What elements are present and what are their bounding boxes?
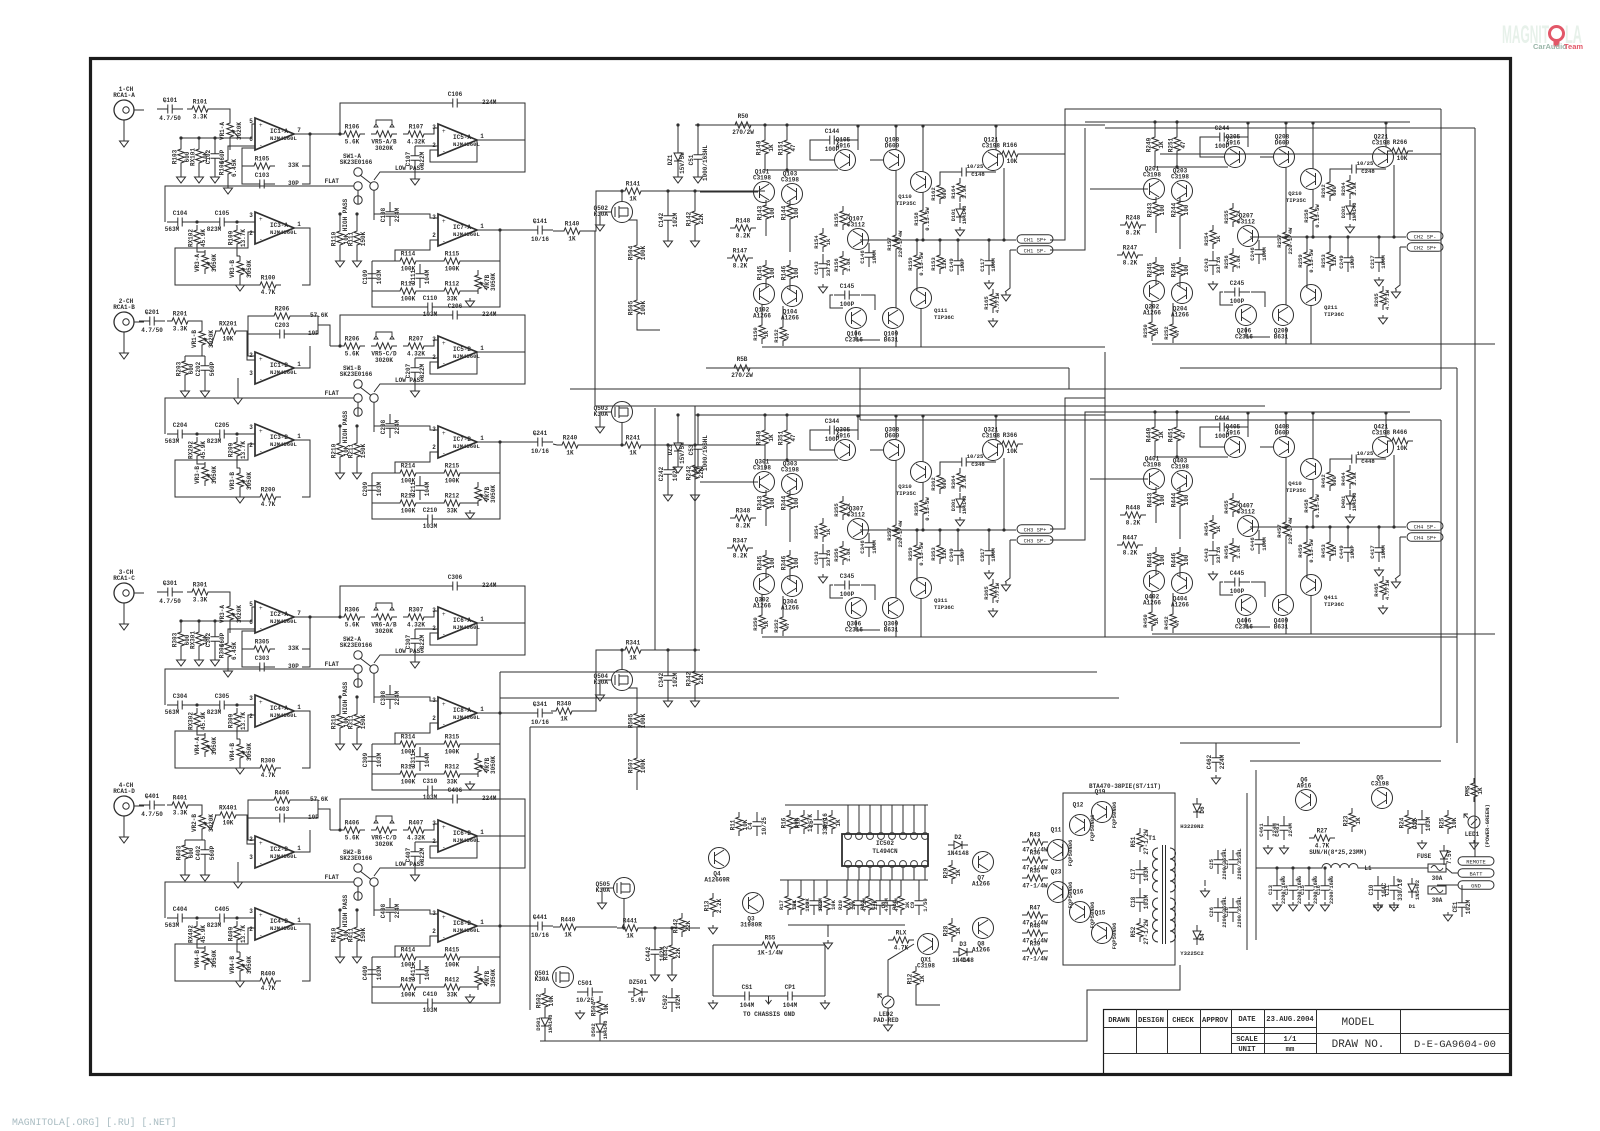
- svg-text:C317: C317: [979, 548, 986, 561]
- wire highpass: [357, 673, 359, 687]
- junction: [921, 238, 924, 241]
- wire: [916, 240, 918, 252]
- resistor: [1310, 492, 1316, 516]
- wire: [184, 840, 186, 846]
- svg-text:R144: R144: [781, 205, 788, 220]
- svg-text:R106: R106: [345, 124, 360, 131]
- svg-text:R153: R153: [930, 257, 937, 271]
- resistor R348: [730, 515, 756, 521]
- svg-text:1K: 1K: [560, 716, 568, 723]
- resistor R245: [1153, 257, 1159, 281]
- capacitor: [985, 541, 994, 565]
- capacitor C310: [417, 786, 443, 795]
- svg-text:224M: 224M: [1219, 754, 1226, 769]
- wire: [184, 355, 186, 357]
- ground: [989, 608, 998, 617]
- wire: [697, 415, 699, 435]
- transistor Q404: [1172, 573, 1193, 594]
- wire: [1285, 539, 1287, 595]
- svg-text:10/25: 10/25: [1357, 450, 1374, 457]
- svg-text:R448: R448: [1126, 505, 1141, 512]
- wire: [922, 126, 924, 172]
- resistor: [1327, 247, 1333, 271]
- wire fb top right: [466, 315, 525, 352]
- wire: [667, 690, 669, 698]
- svg-text:C11: C11: [1384, 884, 1391, 895]
- svg-text:R451: R451: [1168, 427, 1175, 442]
- svg-text:C17: C17: [1130, 868, 1137, 879]
- svg-text:FLAT: FLAT: [325, 874, 340, 881]
- svg-text:6.45K: 6.45K: [231, 642, 238, 660]
- svg-text:1K: 1K: [626, 933, 634, 940]
- svg-text:C446: C446: [1249, 537, 1256, 551]
- wire: [1179, 491, 1181, 493]
- svg-text:1N4148: 1N4148: [1352, 203, 1358, 222]
- capacitor: [985, 251, 994, 275]
- junction: [235, 703, 238, 706]
- potentiometer: [371, 131, 397, 137]
- junction: [1392, 235, 1395, 238]
- svg-text:R411: R411: [348, 927, 355, 942]
- resistor R301: [187, 589, 213, 595]
- svg-text:47: 47: [1174, 620, 1181, 627]
- svg-text:1N4148: 1N4148: [962, 206, 968, 225]
- junction: [1175, 165, 1178, 168]
- wire: [1176, 446, 1178, 457]
- svg-text:-: -: [442, 238, 446, 245]
- svg-text:33K: 33K: [447, 296, 458, 303]
- svg-text:1K: 1K: [1153, 617, 1160, 624]
- transistor Q205: [1225, 147, 1246, 168]
- svg-text:100: 100: [1183, 204, 1190, 215]
- svg-text:FQP50N06: FQP50N06: [1111, 801, 1118, 828]
- junction: [894, 414, 897, 417]
- svg-text:R36: R36: [1030, 850, 1041, 857]
- resistor: [1230, 203, 1236, 227]
- svg-text:R11: R11: [730, 819, 737, 830]
- svg-text:Q12: Q12: [1073, 802, 1084, 809]
- svg-text:VR4-B: VR4-B: [229, 743, 236, 761]
- wire: [845, 430, 858, 440]
- svg-text:45.9K: 45.9K: [200, 712, 207, 730]
- wire fb top right: [466, 103, 525, 140]
- wire bottom bus: [1152, 343, 1495, 345]
- junction: [666, 648, 669, 651]
- svg-text:C410: C410: [423, 991, 438, 998]
- svg-text:IC5-A: IC5-A: [453, 134, 471, 141]
- capacitor C441: [527, 922, 553, 931]
- pot wiper: [480, 978, 487, 986]
- potentiometer: [475, 482, 481, 506]
- svg-text:CH2 SP+: CH2 SP+: [1414, 246, 1437, 252]
- wire: [895, 542, 897, 598]
- resistor: [1327, 467, 1333, 491]
- svg-text:224M: 224M: [394, 690, 401, 705]
- svg-text:33/16: 33/16: [825, 259, 832, 276]
- wire bus: [500, 671, 1097, 673]
- svg-text:Q410: Q410: [1288, 480, 1302, 487]
- wire: [916, 273, 918, 290]
- resistor R206: [269, 313, 295, 319]
- resistor R140: [559, 228, 585, 234]
- svg-text:560P: 560P: [209, 361, 216, 376]
- capacitor: [915, 891, 924, 915]
- wire: [1260, 156, 1273, 158]
- resistor R312: [439, 771, 465, 777]
- wire: [193, 321, 202, 328]
- wire: [421, 290, 439, 292]
- junction: [693, 648, 696, 651]
- svg-text:TO CHASSIS GND: TO CHASSIS GND: [743, 1011, 795, 1018]
- wire: [1385, 123, 1387, 147]
- junction: [1311, 525, 1314, 528]
- resistor R19: [829, 810, 835, 834]
- wire fb top: [340, 315, 444, 346]
- svg-text:5: 5: [249, 601, 253, 608]
- wire: [302, 134, 310, 184]
- wire bus: [1068, 368, 1070, 389]
- wire: [782, 306, 784, 322]
- svg-text:HIGH PASS: HIGH PASS: [342, 198, 349, 231]
- wire inv: [415, 357, 438, 359]
- svg-text:1K: 1K: [568, 236, 576, 243]
- wire: [235, 918, 255, 924]
- svg-text:C3198: C3198: [1171, 464, 1189, 471]
- resistor RX102: [194, 225, 200, 249]
- junction: [620, 189, 623, 192]
- svg-text:103M: 103M: [1425, 816, 1432, 831]
- wire: [184, 380, 186, 388]
- ground: [411, 176, 420, 185]
- svg-text:R146: R146: [781, 265, 788, 280]
- transistor Q16: [1070, 902, 1091, 923]
- svg-text:R459: R459: [1297, 544, 1304, 558]
- wire: [761, 594, 763, 610]
- wire: [193, 917, 209, 919]
- svg-text:10MM: 10MM: [1380, 255, 1387, 269]
- wire: [339, 733, 341, 741]
- svg-text:100K: 100K: [401, 779, 416, 786]
- transistor Q101: [754, 182, 775, 203]
- svg-text:DZ1: DZ1: [667, 154, 674, 165]
- ground: [691, 698, 700, 707]
- resistor: [997, 151, 1023, 157]
- junction: [693, 443, 696, 446]
- svg-text:Q11: Q11: [1051, 827, 1062, 834]
- wire bus: [530, 726, 1441, 728]
- wire: [1235, 137, 1248, 147]
- capacitor: [694, 435, 703, 459]
- FET Q505: [614, 878, 635, 899]
- resistor R143: [763, 200, 769, 224]
- svg-text:330/16: 330/16: [1397, 879, 1404, 901]
- svg-text:33K: 33K: [288, 162, 299, 169]
- svg-text:C101: C101: [163, 97, 178, 104]
- junction: [620, 443, 623, 446]
- svg-text:R55: R55: [765, 935, 776, 942]
- svg-text:1000/16SHL: 1000/16SHL: [702, 435, 709, 471]
- wire bus: [1440, 420, 1442, 727]
- svg-text:Q310: Q310: [898, 483, 912, 490]
- svg-text:R165: R165: [983, 296, 990, 310]
- wire: [810, 140, 835, 160]
- wire supply bus: [695, 124, 1105, 126]
- wire: [870, 449, 883, 451]
- wire: [1246, 617, 1270, 627]
- resistor: [1327, 177, 1333, 201]
- svg-text:IC3-B: IC3-B: [270, 434, 288, 441]
- wire bus: [1180, 367, 1457, 369]
- capacitor: [1255, 240, 1264, 264]
- junction: [308, 132, 311, 135]
- wire: [184, 839, 186, 841]
- transistor Q15: [1092, 923, 1113, 944]
- wire lowpass: [374, 352, 525, 392]
- transistor Q12: [1070, 815, 1091, 836]
- svg-text:DRAW NO.: DRAW NO.: [1332, 1039, 1385, 1051]
- wire opamp4 out: [477, 712, 530, 714]
- wire: [636, 264, 638, 297]
- capacitor: [1255, 530, 1264, 554]
- svg-text:R364: R364: [950, 475, 957, 489]
- wire: [553, 230, 559, 232]
- ground: [1375, 567, 1384, 576]
- op-amp IC3-A: [255, 212, 294, 244]
- svg-text:R352: R352: [773, 619, 780, 633]
- svg-text:R22: R22: [817, 899, 824, 910]
- wire: [764, 125, 766, 135]
- wire: [988, 240, 990, 252]
- svg-text:FLAT: FLAT: [325, 178, 340, 185]
- wire: [248, 800, 269, 818]
- resistor R306: [339, 614, 365, 620]
- wire: [1155, 281, 1157, 285]
- svg-text:R401: R401: [173, 795, 188, 802]
- wire: [239, 492, 241, 494]
- svg-text:C349: C349: [948, 548, 955, 562]
- svg-text:10MM: 10MM: [871, 250, 878, 264]
- junction: [1246, 121, 1249, 124]
- svg-text:-: -: [259, 376, 263, 383]
- junction: [1346, 525, 1349, 528]
- svg-text:R264: R264: [1340, 182, 1347, 196]
- resistor: [1210, 515, 1216, 539]
- op-amp IC3-B: [255, 424, 294, 456]
- svg-text:R456: R456: [1223, 545, 1230, 559]
- wire: [1306, 237, 1308, 249]
- svg-text:-: -: [442, 148, 446, 155]
- IC502 pins: [845, 833, 852, 840]
- resistor: [1170, 319, 1176, 343]
- resistor R39: [1022, 948, 1048, 954]
- svg-text:4.7/1W: 4.7/1W: [1384, 579, 1391, 600]
- svg-text:R443: R443: [1147, 492, 1154, 507]
- svg-text:R51: R51: [1130, 836, 1137, 847]
- svg-text:R112: R112: [445, 281, 460, 288]
- svg-text:220-1/4W: 220-1/4W: [897, 230, 904, 257]
- junction: [1384, 121, 1387, 124]
- diode: [674, 437, 682, 457]
- svg-text:563M: 563M: [165, 709, 180, 716]
- transistor: [911, 462, 932, 483]
- svg-text:30A: 30A: [1432, 897, 1443, 904]
- svg-text:R16: R16: [781, 817, 788, 828]
- transistor Q402: [1144, 571, 1165, 592]
- svg-text:1K: 1K: [955, 927, 962, 935]
- junction: [1284, 411, 1287, 414]
- resistor R315: [439, 741, 465, 747]
- svg-text:47: 47: [784, 333, 791, 340]
- transistor Q409: [1273, 595, 1294, 616]
- svg-text:R155: R155: [833, 213, 840, 227]
- wire: [421, 743, 439, 745]
- svg-text:C442: C442: [645, 946, 652, 961]
- wire: [1220, 582, 1233, 595]
- resistor R147: [727, 255, 753, 261]
- svg-text:R209: R209: [228, 442, 235, 457]
- ground: [1209, 281, 1218, 290]
- svg-text:R5B: R5B: [737, 356, 748, 363]
- svg-text:IC502: IC502: [876, 840, 894, 847]
- svg-text:100K: 100K: [640, 713, 647, 728]
- svg-text:R450: R450: [1142, 614, 1149, 628]
- wire flat: [215, 881, 354, 883]
- wire: [1151, 591, 1153, 607]
- svg-text:23.AUG.2004: 23.AUG.2004: [1266, 1016, 1314, 1024]
- resistor: [798, 891, 804, 915]
- svg-text:R111: R111: [348, 231, 355, 246]
- junction: [1328, 235, 1331, 238]
- wire opamp3 fb: [294, 228, 310, 285]
- op-amp IC2-B: [255, 836, 294, 868]
- svg-text:C342: C342: [658, 672, 665, 687]
- svg-text:10K: 10K: [1397, 445, 1408, 452]
- junction: [355, 908, 358, 911]
- svg-text:8.2K: 8.2K: [733, 553, 748, 560]
- wire input node: [181, 620, 252, 622]
- svg-text:2200/35SHL: 2200/35SHL: [1237, 848, 1243, 879]
- svg-text:47: 47: [790, 144, 797, 152]
- svg-text:+: +: [442, 914, 446, 921]
- svg-text:C15: C15: [1299, 884, 1306, 895]
- resistor: [898, 891, 904, 915]
- svg-text:33/16: 33/16: [825, 549, 832, 566]
- svg-text:1000/16SHL: 1000/16SHL: [702, 145, 709, 181]
- svg-text:IC3-A: IC3-A: [270, 222, 288, 229]
- svg-text:+: +: [259, 699, 263, 706]
- resistor: [840, 251, 846, 275]
- svg-text:+: +: [259, 216, 263, 223]
- wire fb top: [340, 586, 444, 617]
- transistor Q107: [848, 229, 869, 250]
- svg-text:RX102: RX102: [188, 229, 195, 247]
- svg-text:0.15-5W: 0.15-5W: [1314, 494, 1321, 518]
- svg-text:R465: R465: [1373, 583, 1380, 597]
- wire sw out: [374, 190, 390, 214]
- svg-text:R344: R344: [781, 495, 788, 510]
- potentiometer: [227, 601, 233, 625]
- resistor: [785, 891, 791, 915]
- resistor: [957, 178, 963, 202]
- ground: [353, 741, 362, 750]
- resistor R29: [949, 860, 955, 884]
- svg-text:+: +: [259, 122, 263, 129]
- svg-text:+: +: [259, 428, 263, 435]
- wire: [1155, 489, 1157, 493]
- ground: [956, 517, 965, 526]
- wire bias: [1155, 166, 1228, 168]
- svg-text:3: 3: [432, 607, 436, 614]
- junction: [622, 926, 625, 929]
- wire: [193, 704, 209, 706]
- switch: [354, 168, 362, 176]
- svg-text:NJM4560L: NJM4560L: [270, 135, 297, 142]
- wire: [390, 213, 402, 215]
- wire: [235, 222, 255, 228]
- wire inv3: [175, 232, 255, 252]
- resistor R505: [634, 295, 640, 319]
- svg-text:103M: 103M: [423, 523, 438, 530]
- svg-text:1K: 1K: [1355, 817, 1362, 825]
- svg-text:2: 2: [249, 230, 253, 237]
- capacitor C301: [157, 588, 183, 597]
- svg-text:563M: 563M: [165, 922, 180, 929]
- resistor R300: [255, 765, 281, 771]
- svg-text:R206: R206: [345, 336, 360, 343]
- wire: [800, 880, 802, 891]
- svg-text:10K: 10K: [830, 899, 837, 910]
- potentiometer: [199, 326, 205, 350]
- svg-text:C51: C51: [688, 154, 695, 165]
- svg-text:D-E-GA9604-00: D-E-GA9604-00: [1414, 1039, 1496, 1051]
- op-amp IC6-B: [438, 820, 477, 852]
- resistor R446: [1177, 547, 1183, 571]
- wire: [636, 777, 638, 790]
- resistor: [1230, 538, 1236, 562]
- svg-text:R307: R307: [409, 607, 424, 614]
- svg-text:D1: D1: [1409, 903, 1416, 910]
- wire: [600, 412, 611, 424]
- svg-text:NJM4560L: NJM4560L: [270, 853, 297, 860]
- svg-text:D4: D4: [1199, 933, 1206, 941]
- wire: [830, 295, 843, 308]
- resistor: [1347, 175, 1353, 199]
- transformer T1: [1153, 848, 1176, 942]
- svg-text:+: +: [442, 128, 446, 135]
- resistor: [990, 289, 996, 313]
- svg-text:1: 1: [297, 433, 301, 440]
- svg-text:CH1 SP+: CH1 SP+: [1024, 238, 1047, 244]
- pot wiper: [207, 958, 214, 966]
- wire: [239, 280, 241, 282]
- svg-text:D502: D502: [590, 1023, 597, 1037]
- svg-text:R355: R355: [833, 503, 840, 517]
- svg-text:C3198: C3198: [1372, 430, 1390, 437]
- wire to opamp: [239, 607, 255, 621]
- junction: [620, 648, 623, 651]
- wire gnd3: [237, 862, 239, 879]
- ground: [411, 659, 420, 668]
- svg-text:+: +: [259, 356, 263, 363]
- junction: [1284, 235, 1287, 238]
- wire: [1179, 571, 1181, 577]
- resistor: [1380, 576, 1386, 600]
- ground: [1209, 571, 1218, 580]
- wire net left: [371, 261, 373, 291]
- svg-text:3050K: 3050K: [246, 260, 253, 278]
- ground: [819, 574, 828, 583]
- svg-text:10/25: 10/25: [967, 453, 984, 460]
